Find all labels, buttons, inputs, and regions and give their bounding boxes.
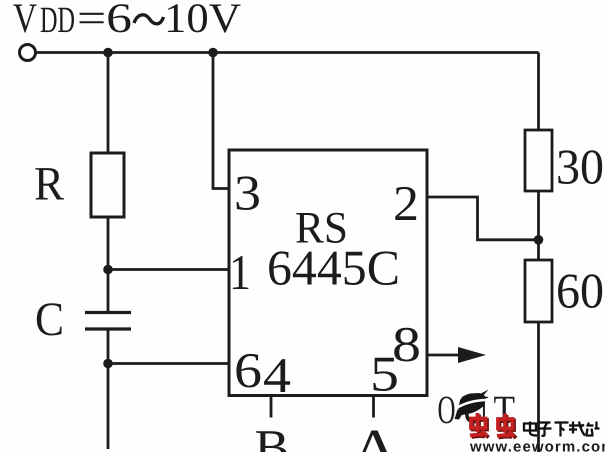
resistor 30 — [525, 130, 552, 191]
wire node A to capacitor C — [107, 270, 110, 312]
wire rail down right column — [537, 53, 540, 131]
junction node B (pin6) — [103, 359, 113, 369]
svg-text:V: V — [13, 0, 37, 42]
svg-text:30: 30 — [556, 139, 604, 195]
wire between resistors — [537, 191, 540, 260]
svg-text:www.eeworm.com: www.eeworm.com — [469, 439, 605, 452]
svg-text:10V: 10V — [164, 0, 241, 42]
resistor 60 — [525, 260, 552, 322]
svg-text:2: 2 — [393, 175, 419, 231]
wire rail to resistor R — [107, 53, 110, 154]
svg-text:O: O — [438, 387, 456, 432]
svg-text:C: C — [35, 293, 64, 346]
svg-text:8: 8 — [392, 316, 421, 372]
watermark text 电 — [524, 422, 537, 436]
wire node B down — [107, 364, 110, 450]
label OUT — [438, 387, 516, 432]
wire node B to pin 6 — [108, 362, 229, 365]
junction node1 — [103, 48, 113, 58]
watermark 虫 char 1 — [470, 413, 487, 436]
junction node2 — [208, 48, 218, 58]
watermark text 站 — [586, 422, 600, 436]
watermark text 下 — [555, 423, 569, 437]
pin 4 stub — [270, 396, 273, 418]
wire R to node A — [107, 217, 110, 270]
wire 60 down to edge — [537, 322, 540, 452]
junction node A (pin1) — [103, 265, 113, 275]
svg-text:A: A — [351, 419, 399, 452]
svg-text:1: 1 — [229, 244, 251, 300]
terminal VDD — [20, 45, 36, 61]
wire pin 8 output — [427, 354, 460, 357]
svg-text:3: 3 — [234, 165, 261, 221]
svg-text:60: 60 — [556, 263, 604, 319]
wire top rail — [37, 51, 539, 54]
svg-text:R: R — [34, 158, 64, 211]
wire rail to pin 3 — [213, 53, 229, 189]
svg-text:=6: =6 — [77, 0, 132, 42]
svg-text:DD: DD — [40, 0, 75, 41]
svg-text:B: B — [255, 419, 290, 452]
wire pin 2 to node C — [427, 197, 539, 240]
svg-text:4: 4 — [263, 347, 291, 403]
wire C to node B — [107, 331, 110, 364]
watermark 虫 char 1 shadow — [472, 415, 489, 438]
svg-text:6: 6 — [234, 342, 262, 398]
svg-text:6445C: 6445C — [267, 240, 400, 296]
wire node A to pin 1 — [108, 268, 229, 271]
arrow output — [458, 347, 486, 363]
junction node C — [534, 235, 544, 245]
resistor R — [91, 153, 124, 217]
watermark logo beret — [455, 390, 489, 420]
label VDD=6~10V — [13, 0, 241, 42]
watermark text 子 — [538, 423, 552, 436]
op-amp U1 RS6445C body — [229, 150, 427, 396]
pin 5 stub — [372, 396, 375, 418]
watermark 虫 char 2 — [497, 414, 514, 437]
capacitor C — [85, 313, 131, 330]
watermark 虫 char 2 shadow — [499, 415, 517, 438]
watermark text 载 — [569, 422, 585, 436]
